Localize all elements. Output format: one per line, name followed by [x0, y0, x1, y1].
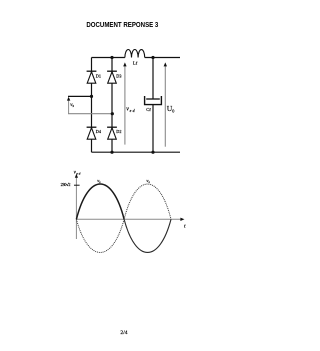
diode D4	[87, 127, 97, 139]
arrow: output voltage U0	[164, 62, 167, 146]
node: top bus / capacitor junction	[151, 56, 154, 59]
curve: -vs (dotted) positive lobe	[124, 184, 171, 219]
svg-text:Lf: Lf	[133, 61, 138, 66]
curve: vs sine (solid) negative lobe	[124, 219, 171, 252]
svg-text:2/4: 2/4	[120, 330, 127, 336]
arrow: rectified voltage ved	[123, 62, 126, 144]
wire: top bus from bridge to output (left part)	[92, 57, 125, 59]
node: top bus / right leg junction	[110, 56, 113, 59]
graph x-axis	[76, 218, 184, 221]
svg-text:230√2: 230√2	[61, 182, 71, 187]
tick: peak value mark	[74, 184, 80, 186]
node: right leg AC input junction	[111, 112, 114, 115]
diode D1	[87, 71, 97, 83]
diode D3	[107, 71, 117, 83]
svg-text:D2: D2	[116, 129, 121, 134]
svg-text:vs: vs	[97, 178, 101, 184]
wire: bottom bus	[92, 151, 181, 153]
svg-text:vs: vs	[70, 103, 74, 108]
wire: capacitor branch upper	[152, 58, 154, 100]
svg-text:D1: D1	[96, 73, 101, 78]
wire: AC input upper conductor	[68, 95, 92, 97]
node: bottom bus / capacitor junction	[151, 151, 154, 154]
inductor Lf	[125, 49, 145, 57]
svg-text:ved: ved	[126, 106, 134, 112]
wire: right bridge leg	[111, 58, 113, 153]
diode D2	[107, 127, 117, 139]
curve: vs sine (solid) positive lobe	[76, 184, 124, 219]
wire: left bridge leg	[91, 58, 93, 153]
svg-text:vs: vs	[146, 178, 150, 184]
node: left leg AC input junction	[90, 95, 93, 98]
wire: AC input lower conductor (grey)	[68, 113, 112, 115]
wire: top bus right of inductor to output terminal	[145, 57, 180, 59]
graph y-axis	[75, 174, 78, 239]
svg-text:t: t	[184, 223, 186, 229]
svg-text:D3: D3	[116, 73, 121, 78]
curve: -vs (dotted) negative lobe	[76, 219, 124, 252]
svg-text:D4: D4	[96, 129, 102, 134]
arrow: source voltage vs	[67, 97, 70, 114]
capacitor Cf	[145, 96, 162, 105]
svg-text:Cf: Cf	[146, 107, 151, 112]
svg-text:ved: ved	[74, 170, 81, 176]
svg-text:U0: U0	[167, 104, 175, 113]
node: bottom bus / right leg junction	[110, 151, 113, 154]
title: DOCUMENT REPONSE 3	[0, 20, 247, 29]
wire: capacitor branch lower	[152, 105, 154, 153]
